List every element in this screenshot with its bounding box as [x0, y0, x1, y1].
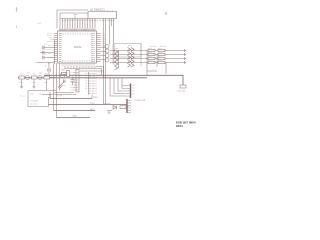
- wire verticals from U1: [54, 63, 60, 118]
- junction label ALE: [74, 15, 77, 19]
- node +5V arrow: [48, 62, 50, 64]
- U1 left pin names: [59, 34, 62, 62]
- faint mark top right: [165, 13, 167, 15]
- U1 right pin stubs: [97, 34, 101, 62]
- label marks under row: [19, 83, 48, 105]
- resistor R3: [44, 76, 50, 79]
- connector J5 bar: [126, 99, 128, 113]
- transistor Q7: [105, 54, 109, 58]
- capacitor C9: [48, 64, 50, 75]
- resistor R41: [148, 61, 155, 63]
- capacitor bars: [43, 46, 44, 59]
- svg-text:D5 R9: D5 R9: [104, 104, 111, 106]
- svg-text:Y1 12M: Y1 12M: [30, 101, 38, 103]
- resistor R1: [19, 76, 25, 79]
- U1 top-row pin names band: [60, 33, 96, 34]
- diode D5: [113, 106, 117, 110]
- connector P5 top-left faint: [16, 7, 19, 28]
- row end arrows: [184, 50, 186, 64]
- svg-text:TXD: TXD: [90, 103, 95, 105]
- svg-text:+5V: +5V: [50, 39, 54, 41]
- wire to lower box: [28, 80, 56, 91]
- transistor Q6: [105, 49, 109, 53]
- wire: [91, 95, 93, 99]
- IC U2 (top latch): [88, 12, 117, 19]
- power rail 1: [44, 75, 183, 85]
- pin header P2: [88, 72, 90, 95]
- wire cluster bottom: [42, 92, 76, 99]
- ground mark: [107, 111, 112, 114]
- ladder verticals: [147, 51, 157, 76]
- bottom net wires: [49, 94, 127, 118]
- bus wires U2 to mid cluster: [104, 19, 114, 105]
- svg-text:GND: GND: [72, 116, 77, 118]
- U1 left outside labels: [47, 34, 52, 58]
- ground Q2: [33, 80, 36, 89]
- svg-text:C14 104: C14 104: [177, 91, 186, 93]
- capacitor C11 bars: [64, 80, 66, 83]
- transistor Q1: [26, 76, 30, 80]
- U1 bottom-row pin names band: [62, 60, 96, 61]
- resistor R6 small: [62, 72, 67, 74]
- svg-text:+5V: +5V: [37, 23, 41, 25]
- resistor R21: [148, 53, 155, 55]
- svg-text:RXD: RXD: [93, 97, 98, 99]
- wire bottom band to rails: [80, 67, 104, 78]
- resistor R32: [158, 57, 165, 59]
- resistor R5 vertical: [67, 71, 70, 77]
- ground Q1: [20, 80, 23, 89]
- U1 bottom pin numbers: [64, 66, 96, 68]
- connector J4 bar: [130, 84, 132, 99]
- resistor R31: [148, 57, 155, 59]
- diode arrows column 2: [128, 48, 135, 68]
- svg-text:2004: 2004: [176, 124, 183, 128]
- U1 top pin ticks: [60, 29, 94, 32]
- resistor R9: [120, 106, 126, 109]
- diode D2 diagonal: [58, 82, 65, 89]
- U1 top pin numbers: [59, 29, 96, 31]
- transistor Q3: [60, 73, 64, 77]
- RP labels above ladder: [150, 46, 166, 48]
- U2 bottom pin number band: [62, 19, 115, 21]
- staircase wires to connector J4: [110, 78, 122, 96]
- svg-text:P1 MOTOR: P1 MOTOR: [134, 100, 146, 102]
- resistor R22: [158, 53, 165, 55]
- capacitor C10: [71, 77, 75, 86]
- resistor R2: [32, 76, 38, 79]
- resistor R12: [158, 49, 165, 51]
- wire main row: [18, 77, 56, 79]
- U1 right pin names: [91, 34, 95, 62]
- labels left of J3: [62, 70, 68, 72]
- svg-text:89C52: 89C52: [74, 46, 82, 49]
- resistor R42: [158, 61, 165, 63]
- mid cluster: transistor Q5: [105, 45, 109, 49]
- opto box U3: [114, 44, 141, 58]
- U1 left pin stubs: [54, 34, 58, 62]
- wires IC to transistors: [101, 48, 107, 60]
- mid cluster labels: [115, 46, 132, 62]
- wire top-left bus wrap: [57, 10, 88, 29]
- diode arrows column 1: [115, 48, 135, 71]
- ladder labels: [148, 49, 162, 61]
- resistor R11: [148, 49, 155, 51]
- U1 right outside labels: [102, 34, 106, 46]
- regulator U4: [180, 85, 186, 88]
- IC U1 (MCU 89C52): [58, 31, 97, 63]
- connector J3: [76, 70, 79, 93]
- power rail 2: [18, 77, 147, 79]
- label marks cluster: [56, 78, 65, 96]
- U2 top pin ticks: [90, 10, 113, 11]
- transistor Q8: [105, 58, 109, 62]
- wire bus rail under U2: [60, 18, 88, 20]
- ladder row wires: [110, 51, 185, 63]
- wire right to regulator: [165, 63, 167, 75]
- svg-text:INT0: INT0: [90, 109, 96, 111]
- transistor Q2: [38, 76, 42, 80]
- bus wires U2 to U1: [63, 19, 96, 29]
- sub box outline: [28, 91, 49, 107]
- U1 bottom pin stubs: [62, 63, 94, 66]
